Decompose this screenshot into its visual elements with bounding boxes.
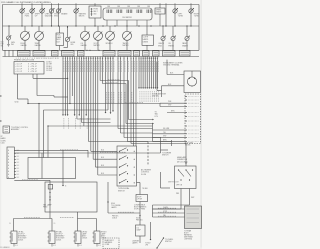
svg-text:LIGHTING): LIGHTING)	[184, 239, 193, 241]
svg-text:+ PNL LP: + PNL LP	[30, 66, 37, 68]
svg-text:IGN SW: IGN SW	[152, 96, 159, 98]
tail lamp circuit outline box	[45, 182, 97, 212]
cluster connector pins and harness wires	[62, 57, 64, 60]
gauge SPEEDO	[109, 26, 111, 31]
BLK ground wires	[166, 60, 168, 75]
indicator lamp SVC ENG with wire	[51, 5, 53, 27]
svg-text:DK GRN: DK GRN	[163, 128, 170, 130]
svg-text:BLU: BLU	[101, 165, 104, 167]
fasten belts reminder module	[94, 5, 96, 7]
long wire run to right	[28, 103, 160, 105]
svg-text:METER: METER	[94, 45, 101, 47]
RH backup lamp	[94, 231, 100, 244]
to backup lamps arrow	[150, 222, 152, 239]
gauge TACHO METER	[126, 26, 128, 31]
svg-text:WHT: WHT	[191, 197, 194, 199]
wires to right harness with arrows	[138, 60, 140, 88]
svg-text:STOP LP: STOP LP	[18, 234, 25, 236]
svg-text:BRAKE: BRAKE	[182, 44, 189, 47]
svg-text:FEED: FEED	[43, 207, 48, 209]
svg-text:BLK: BLK	[17, 156, 20, 158]
svg-text:W SOCKET: W SOCKET	[56, 238, 65, 240]
svg-text:S306: S306	[111, 203, 115, 205]
generator indicator lamp	[8, 26, 10, 36]
svg-text:S210: S210	[15, 102, 19, 104]
svg-text:FUEL: FUEL	[57, 35, 61, 37]
dimmer L-wire	[160, 172, 162, 188]
svg-text:20: 20	[54, 223, 56, 225]
svg-text:OFF ON: OFF ON	[176, 185, 183, 187]
indicator lamp OIL PRESS	[172, 26, 174, 36]
svg-text:SWITCH: SWITCH	[165, 241, 172, 243]
svg-text:BLK: BLK	[17, 177, 20, 179]
branch wires down	[38, 104, 40, 158]
ground symbol	[7, 43, 10, 45]
cluster bottom border	[3, 49, 200, 51]
svg-text:BLK: BLK	[17, 168, 20, 170]
cluster lamps dimming box	[146, 26, 148, 35]
svg-text:STOP: STOP	[137, 196, 141, 198]
svg-text:METER: METER	[123, 45, 130, 47]
svg-text:188: 188	[137, 6, 140, 8]
wires from bulkhead connector	[14, 149, 88, 151]
svg-text:GAUGE: GAUGE	[21, 44, 28, 47]
svg-text:BLK: BLK	[17, 165, 20, 167]
svg-text:PNK BLK: PNK BLK	[136, 220, 144, 222]
indicator lamp RIGHT TURN with wire	[190, 5, 192, 27]
svg-text:BLK: BLK	[53, 245, 56, 247]
RH tail stop lamp assembly	[49, 231, 55, 244]
svg-text:SWITCH: SWITCH	[162, 155, 169, 157]
svg-text:BLU: BLU	[101, 173, 104, 175]
svg-text:C3 BLU: C3 BLU	[46, 66, 53, 68]
svg-text:C5 RED: C5 RED	[46, 70, 53, 72]
printed circuit edge line	[3, 56, 200, 58]
heater A/C control connector	[3, 126, 10, 133]
stop lamp switch with feed wire	[137, 182, 141, 184]
A/C heater control illumination resistor	[147, 142, 149, 144]
svg-text:BLU: BLU	[101, 157, 104, 159]
wire name labels	[125, 102, 143, 104]
svg-text:750 BLK: 750 BLK	[142, 188, 148, 190]
wire bundle staircase to right	[107, 60, 109, 110]
wires into switch top	[133, 60, 135, 146]
svg-text:DIMNG: DIMNG	[143, 41, 149, 43]
tail lamp feed wire with splices	[14, 179, 50, 181]
speedometer odometer display	[103, 8, 152, 20]
svg-text:C2 GRY: C2 GRY	[46, 64, 53, 66]
svg-text:SPEED: SPEED	[156, 9, 162, 11]
svg-text:95 CAMARO: 95 CAMARO	[0, 246, 10, 249]
harness wires with terminating arrows	[62, 60, 64, 115]
backup lamp feed	[77, 212, 79, 219]
turn signal switch	[117, 146, 137, 186]
svg-text:C100: C100	[1, 143, 5, 145]
svg-text:LH B/U: LH B/U	[82, 232, 88, 234]
svg-text:CLSTR: CLSTR	[143, 37, 149, 39]
svg-text:TEL: TEL	[1, 46, 4, 48]
svg-text:188: 188	[117, 6, 120, 8]
svg-text:BLU: BLU	[101, 149, 104, 151]
svg-text:9: 9	[34, 58, 35, 60]
license lamp branch with splice S306	[107, 182, 109, 213]
svg-text:+ PNL LP: + PNL LP	[30, 71, 37, 73]
rear body harness connector dashed	[103, 238, 119, 249]
svg-text:GAUGE: GAUGE	[35, 44, 42, 47]
svg-text:+ CLU LP: + CLU LP	[15, 66, 22, 68]
ignition feed bus wire	[3, 25, 200, 27]
indicator lamp BRAKE with wire	[58, 5, 60, 27]
svg-text:LPS: LPS	[145, 245, 148, 247]
svg-text:TO B/U: TO B/U	[145, 243, 151, 245]
svg-text:BLK: BLK	[79, 245, 82, 247]
svg-text:+ CLU LP: + CLU LP	[15, 71, 22, 73]
ground distribution outline box	[28, 158, 76, 179]
svg-text:BLK: BLK	[15, 245, 18, 247]
svg-text:BLK: BLK	[17, 162, 20, 164]
svg-text:STOP LP: STOP LP	[56, 234, 63, 236]
wire bends to right side	[69, 60, 71, 104]
svg-text:TO LICENSE: TO LICENSE	[111, 205, 120, 207]
svg-text:TO DIMMER: TO DIMMER	[162, 153, 172, 155]
svg-text:188: 188	[107, 6, 110, 8]
high beam indicator lamp	[67, 26, 69, 37]
svg-text:SPEEDO: SPEEDO	[106, 43, 114, 45]
svg-text:STOP: STOP	[163, 211, 167, 213]
svg-text:SWITCH: SWITCH	[118, 190, 125, 192]
gauge OIL GAUGE	[84, 26, 86, 31]
svg-text:BLK: BLK	[17, 171, 20, 173]
LH tail stop lamp assembly	[11, 231, 17, 244]
svg-text:S417: S417	[136, 218, 140, 220]
svg-text:C4 WHT: C4 WHT	[46, 68, 52, 70]
svg-text:LICENSE: LICENSE	[132, 241, 139, 243]
gauge VOLT METER	[97, 26, 99, 31]
indicator lamp FASTEN BELTS with wire	[75, 5, 77, 27]
svg-text:PNK BLK: PNK BLK	[112, 216, 118, 218]
stop tail CHMSL wires to rear harness	[153, 208, 185, 210]
turn signal switch feed wires	[90, 60, 92, 152]
svg-text:+ CLU LP: + CLU LP	[15, 69, 22, 71]
gauge FUEL GAUGE	[24, 26, 26, 31]
dashed connector C2	[185, 94, 201, 144]
svg-text:19: 19	[57, 58, 59, 60]
bus junction dots	[8, 25, 9, 26]
svg-text:ENG: ENG	[54, 16, 58, 18]
rear body harness connector block	[185, 206, 202, 229]
bulkhead connector C100	[7, 147, 14, 179]
svg-text:PNK: PNK	[176, 193, 179, 195]
svg-text:+ PNL LP: + PNL LP	[30, 63, 37, 65]
svg-text:PRESS: PRESS	[168, 45, 175, 47]
svg-text:ILLUM: ILLUM	[141, 174, 147, 176]
instrument cluster top border	[3, 4, 200, 6]
svg-text:TURN: TURN	[178, 16, 184, 18]
CHMSL switch diagonal	[157, 238, 164, 248]
svg-text:W SOCKET: W SOCKET	[18, 238, 27, 240]
svg-text:C1 BLK: C1 BLK	[46, 62, 53, 64]
svg-text:188: 188	[127, 6, 130, 8]
svg-text:BLK: BLK	[17, 174, 20, 176]
svg-text:1995 CAMARO 3.4L INSTRUMENT CL: 1995 CAMARO 3.4L INSTRUMENT CLUSTER WIRI…	[1, 1, 51, 4]
svg-text:BRAKE: BRAKE	[61, 13, 68, 16]
to dimmer switch wire	[160, 137, 162, 150]
indicator lamp CHECK ENG	[162, 26, 164, 36]
svg-text:BLK: BLK	[17, 159, 20, 161]
indicator lamp SHIFT UP with wire	[31, 5, 33, 27]
svg-text:TURN: TURN	[194, 16, 200, 18]
svg-text:RH B/U: RH B/U	[101, 232, 107, 234]
tail lamp feed split	[14, 218, 53, 220]
svg-text:20 BLK: 20 BLK	[112, 218, 117, 220]
svg-text:NOT USED: NOT USED	[185, 143, 194, 145]
indicator lamp CHECK GAUGES with wire	[41, 5, 43, 27]
cluster right border	[198, 5, 200, 51]
svg-text:+ CLU LP: + CLU LP	[15, 63, 22, 65]
svg-text:20: 20	[9, 223, 11, 225]
page edge marks	[0, 95, 2, 97]
svg-text:SEE PWR DIST: SEE PWR DIST	[168, 182, 179, 184]
indicator lamp LOW FUEL with wire	[21, 5, 23, 27]
svg-text:YEL: YEL	[163, 132, 166, 134]
printed circuit connector blocks	[18, 51, 31, 56]
cluster left border	[2, 5, 4, 27]
svg-text:GAUGES: GAUGES	[45, 15, 53, 18]
wire from legend box with splice S210	[17, 74, 19, 99]
svg-text:GAUGE: GAUGE	[81, 44, 88, 47]
svg-text:FUEL: FUEL	[25, 16, 30, 18]
svg-text:ULE: ULE	[57, 41, 60, 43]
speed sensor box	[159, 5, 161, 9]
connector stubs above border	[21, 3, 23, 4]
indicator lamp LEFT TURN with wire	[174, 5, 176, 27]
svg-text:BELTS: BELTS	[79, 16, 85, 18]
svg-text:ODOMETER: ODOMETER	[122, 17, 133, 19]
fuel gauge module box	[59, 26, 61, 33]
gauge TEMP GAUGE	[38, 26, 40, 31]
svg-text:GROUND TERMINAL: GROUND TERMINAL	[163, 64, 180, 67]
svg-text:LP SW: LP SW	[137, 199, 142, 201]
wire drop x166	[165, 5, 167, 27]
svg-text:CONVERTIBLE: CONVERTIBLE	[134, 205, 145, 207]
svg-text:BLK: BLK	[98, 245, 101, 247]
to tail lamps arrows	[153, 119, 154, 121]
indicator lamp PARK BRAKE	[186, 26, 188, 36]
svg-text:SENSR: SENSR	[156, 12, 162, 14]
svg-text:+ PNL LP: + PNL LP	[30, 69, 37, 71]
license lamp	[136, 225, 146, 236]
svg-text:TO CHMSL: TO CHMSL	[165, 239, 173, 241]
wires into connector C2	[160, 102, 185, 104]
ground terminal box with eyelet	[184, 71, 201, 93]
LH backup lamp	[75, 231, 81, 244]
svg-text:188: 188	[147, 6, 150, 8]
